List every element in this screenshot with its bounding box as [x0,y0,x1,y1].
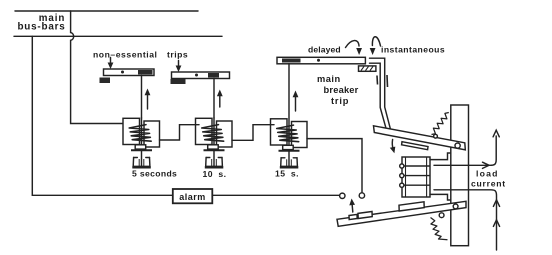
lower lever contact step 2 [358,212,372,219]
relay 1 frame right [144,121,160,147]
wire from top bus down (with hop over lower bus) [71,11,124,124]
relay 2 coil [202,125,224,142]
svg-text:alarm: alarm [179,192,206,202]
trip bar 1 support [100,78,111,84]
trip bar 1 (non-essential trip latch) [104,69,155,76]
load current in wire (bottom) [434,190,500,250]
trip coil turns [405,166,430,185]
svg-text:10 s.: 10 s. [203,169,227,179]
trip bar 1 pivot [121,71,124,74]
alarm wire to contact [212,194,339,196]
relay 1 stem wire [141,76,143,119]
relay 1 dashpot cup [133,158,150,167]
lower lever spring anchor pin [439,213,444,218]
relay 3 plunger arrow [293,91,299,112]
relay 1 coil [129,125,151,142]
relay 2 frame right [217,121,233,147]
load current out wire (top) [434,130,499,168]
breaker panel [451,105,469,246]
relay 2 plunger rod [213,118,215,150]
relay 2 plunger [208,145,219,149]
relay 3 plunger rod [288,119,290,151]
svg-text:instantaneous: instantaneous [381,45,445,55]
relay 2 frame left [196,118,213,144]
instantaneous armature rod [370,58,391,128]
relay 1 plunger rod [141,118,143,150]
relay 2 plunger arrow [217,90,223,108]
label load current [471,169,506,189]
label main bus-bars [17,13,65,33]
svg-text:15 s.: 15 s. [275,169,299,179]
upper contact lever [374,126,466,150]
contact circle right [359,193,364,198]
relay 2 piston bar [204,149,225,151]
bus-bar top line [15,10,198,12]
upper lever pivot [455,143,460,148]
upper lever contact pad [402,142,428,150]
upper lever spring anchor pin [434,134,438,138]
relay 2 stem wire [213,79,215,119]
svg-text:main: main [317,74,341,84]
relay 2 (10 s dashpot relay) [196,118,233,167]
svg-text:trip: trip [331,96,349,106]
trip bar 2 (non-essential trip latch) [172,72,230,79]
svg-text:current: current [471,179,506,189]
svg-text:delayed: delayed [308,45,341,55]
relay 1 frame left [123,118,140,144]
contact circle left [340,193,345,198]
relay 1 plunger arrow [145,89,151,110]
upper lever release arrow [390,140,396,154]
svg-text:breaker: breaker [324,85,359,95]
wire from lower bus down to alarm line [32,36,172,195]
instantaneous latch block (hatched) [359,66,376,71]
upper restraining spring [432,113,449,135]
arrow to trip bar 2 [176,61,182,73]
coil bottom lead [430,194,451,200]
trip bar 2 latch block [208,73,219,78]
trip bar 1 latch block [138,70,153,75]
svg-text:load: load [476,169,499,179]
delayed curved arrow [346,41,363,55]
trip coil body [400,157,430,197]
relay 3 coil [277,125,299,142]
wire relay2 to relay3 [232,125,274,141]
bus-bar bottom line [14,35,222,37]
lower lever pivot [453,204,458,209]
lower lever contact step 1 [349,214,357,219]
relay 1 (5 s dashpot relay) [123,118,160,167]
svg-text:bus-bars: bus-bars [17,22,65,33]
coil top lead [430,153,451,160]
wire relay3 to contact [307,139,362,193]
relay 3 dashpot cup [281,158,298,167]
relay 3 frame right [292,122,308,148]
trip bar 2 support [171,79,186,84]
svg-text:non–essential: non–essential [93,50,157,60]
relay 3 piston bar [279,150,300,152]
relay 1 piston bar [131,149,152,151]
relay 3 frame left [271,119,288,145]
delayed trip bar (main breaker trip latch) [277,57,365,64]
relay 3 stem wire [288,64,290,118]
arrow to trip bar 1 [108,58,114,70]
contact closing arrow [349,199,355,213]
lower lever contact pad [399,202,424,211]
lower restraining spring [431,218,448,240]
lower contact lever [337,201,466,226]
wire relay1 to relay2 [160,125,200,140]
svg-text:5 seconds: 5 seconds [132,169,177,179]
svg-text:trips: trips [167,50,188,60]
relay 2 dashpot cup [206,158,223,167]
trip coil turn loops [400,164,404,187]
delayed bar pivot [317,59,320,62]
label main breaker trip [317,74,359,106]
trip bar 2 pivot [195,74,198,77]
relay 1 plunger [135,145,146,149]
delayed bar latch block [282,59,301,63]
relay 3 plunger [283,145,294,149]
alarm box [173,189,213,203]
instantaneous curved arrow [370,37,381,55]
relay 3 (15 s dashpot relay) [271,119,308,168]
